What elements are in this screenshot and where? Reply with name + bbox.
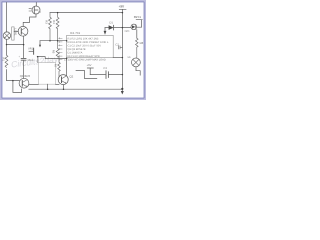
- wire: box top-left stub: [37, 57, 39, 63]
- svg-text:N/O: N/O: [125, 30, 130, 33]
- wire: Q3 collector to box: [29, 84, 39, 86]
- arrow into box top: [104, 28, 106, 31]
- wire: left rail bottom: [7, 70, 20, 81]
- svg-text:L1 230V AC 60W LAMP MAX LOAD: L1 230V AC 60W LAMP MAX LOAD: [64, 59, 106, 62]
- svg-text:R3: R3: [44, 20, 48, 24]
- preset arrowhead: [39, 45, 41, 48]
- wire: rail to Q3: [23, 60, 25, 78]
- preset bar: [33, 48, 35, 54]
- transistor Q3: [19, 78, 29, 88]
- svg-text:LDR1: LDR1: [13, 28, 17, 36]
- resistor R5 to Q4: [58, 59, 61, 77]
- wire: mic top stub: [35, 3, 37, 7]
- wire: staircase: [76, 71, 97, 79]
- wire: mic to Q1 collector: [23, 14, 36, 26]
- wire: divider tap: [7, 44, 24, 46]
- relay coil blob: [131, 24, 137, 30]
- wire: lamp out: [136, 67, 140, 75]
- svg-text:R7: R7: [54, 64, 58, 68]
- svg-text:L1: L1: [128, 55, 132, 59]
- microphone MIC1: [32, 6, 40, 14]
- transistor Q4: [58, 75, 68, 85]
- diode D1: [105, 25, 131, 30]
- svg-text:IC1 741: IC1 741: [70, 31, 81, 35]
- wire: node to annotation box: [38, 57, 67, 59]
- capacitor C1: [21, 58, 26, 60]
- svg-text:R1: R1: [2, 57, 6, 61]
- svg-text:R1 R2 LDR1 10K 4K7 2N3: R1 R2 LDR1 10K 4K7 2N3: [68, 37, 99, 40]
- resistor R3: [49, 13, 52, 41]
- wire: Q1 emitter rail down: [23, 36, 25, 58]
- wire: left rail below LDR: [6, 39, 8, 55]
- resistor R4: [56, 13, 59, 41]
- ground arrow at 0V: [121, 89, 123, 91]
- labels and annotation text: [2, 5, 144, 79]
- wire: LDR network to Q1 base: [14, 31, 18, 33]
- wire: box to Q4: [56, 83, 59, 85]
- wire: R4 column down: [56, 41, 59, 59]
- terminal bar: [87, 68, 93, 75]
- svg-text:R8: R8: [140, 41, 144, 45]
- wire: down to 0V line: [13, 81, 22, 93]
- svg-text:+6V: +6V: [87, 64, 92, 67]
- svg-text:VR1: VR1: [28, 48, 34, 51]
- resistor R2 box beside LDR: [12, 27, 14, 40]
- svg-text:Q1 BC5: Q1 BC5: [20, 74, 31, 78]
- LDR LDR1: [3, 32, 10, 39]
- svg-text:R5: R5: [51, 50, 55, 54]
- list arrows: [59, 38, 63, 61]
- wire: box bottom stub: [47, 84, 49, 89]
- relay top bar: [136, 20, 142, 28]
- svg-text:C1 C2 10uF 25V 0.01uF 50V: C1 C2 10uF 25V 0.01uF 50V: [68, 44, 102, 47]
- parts list text block: [59, 37, 109, 61]
- svg-text:+9V: +9V: [118, 5, 125, 9]
- wire: preset to rail: [29, 50, 34, 52]
- svg-text:Q2: Q2: [69, 75, 73, 79]
- svg-text:RLY1 6V 100R RELAY SPD: RLY1 6V 100R RELAY SPD: [68, 55, 100, 58]
- wire: R3/R4 bottom bus: [40, 40, 67, 42]
- component box (bottom-left): [38, 63, 55, 85]
- svg-text:D1: D1: [109, 21, 113, 25]
- +V rail right: [121, 13, 123, 89]
- wire: box corner down to Q4 collector: [66, 58, 68, 76]
- wire: top supply: [50, 12, 122, 14]
- +9V terminal: [119, 9, 126, 12]
- wire: preset arrow stem: [39, 41, 41, 45]
- svg-text:10uF: 10uF: [27, 58, 34, 62]
- resistor R6: [136, 38, 139, 58]
- capacitor C2 on +V rail: [118, 46, 122, 49]
- svg-text:C2: C2: [115, 43, 119, 46]
- wire: Q4 emitter to 0V: [62, 85, 64, 90]
- svg-text:C3: C3: [103, 67, 107, 70]
- wire: left +V rail top: [6, 3, 8, 32]
- svg-text:Q1 Q2 BC547B: Q1 Q2 BC547B: [68, 48, 86, 51]
- 0V rail: [29, 88, 123, 90]
- mic sound waves: [29, 8, 31, 11]
- wire: box right to +V rail: [113, 57, 122, 59]
- svg-text:R4: R4: [52, 20, 56, 24]
- annotation box: [67, 35, 114, 57]
- mic label: [39, 11, 41, 13]
- wire: relay to resistor: [136, 30, 138, 39]
- junction dots: [6, 12, 124, 90]
- lamp L1: [132, 58, 141, 67]
- resistor R1 (left rail): [5, 55, 8, 67]
- transistor Q1: [18, 26, 28, 36]
- svg-text:RLY1: RLY1: [134, 15, 141, 19]
- capacitor C3: [90, 71, 122, 79]
